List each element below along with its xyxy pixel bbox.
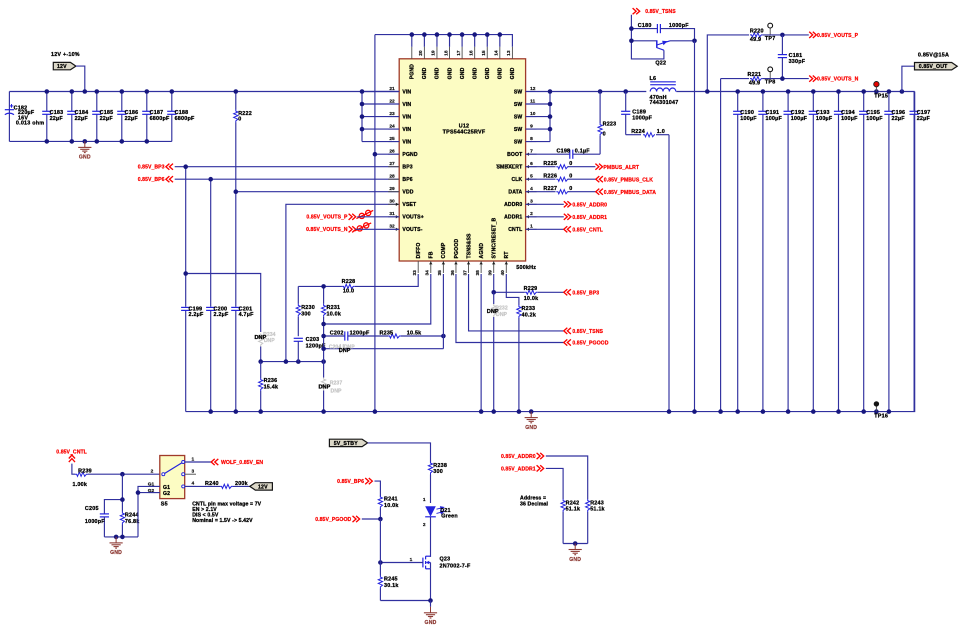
svg-text:WOLF_0.85V_EN: WOLF_0.85V_EN — [221, 460, 263, 466]
svg-text:SYNC/RESET_B: SYNC/RESET_B — [492, 217, 498, 258]
svg-text:100µF: 100µF — [841, 116, 858, 122]
wire input cap bottom rail — [9, 140, 171, 142]
wire VDD row — [236, 191, 399, 193]
svg-text:38: 38 — [475, 270, 481, 276]
svg-text:40.2k: 40.2k — [522, 312, 537, 318]
wire FB row — [324, 274, 431, 324]
svg-text:GND: GND — [460, 67, 466, 79]
svg-text:GND: GND — [569, 557, 581, 563]
svg-text:G1: G1 — [163, 485, 170, 491]
wire SW row — [526, 91, 647, 93]
wire CNTL label to R239 — [72, 464, 75, 475]
wire S5 G1 G2 to ground — [138, 486, 160, 537]
wires SW pin stubs — [526, 104, 550, 142]
svg-text:100µF: 100µF — [766, 116, 783, 122]
resistor R220 — [750, 28, 764, 42]
svg-text:37: 37 — [462, 270, 468, 276]
svg-text:29: 29 — [389, 186, 395, 192]
junction BP3 branch — [183, 271, 188, 276]
wire AGND column — [480, 274, 482, 412]
net label 0.85V_BP6 bottom — [337, 478, 372, 485]
resistor R237 DNP ghost — [318, 362, 342, 412]
junctions bottom node S5 — [114, 535, 125, 540]
capacitor C192 — [784, 92, 808, 412]
wire S5 pin1 to EN label — [185, 461, 212, 463]
wire R220 to label — [763, 34, 809, 36]
wire VOUTS- row — [355, 228, 399, 230]
svg-text:R221: R221 — [748, 72, 762, 78]
wire address ground row — [563, 543, 588, 545]
svg-text:GND: GND — [435, 67, 441, 79]
junction PGOOD divider — [378, 517, 383, 522]
wire BP6 row — [175, 178, 400, 180]
resistor R233 — [517, 305, 536, 412]
svg-text:35: 35 — [437, 270, 443, 276]
capacitor C186 — [117, 92, 138, 142]
svg-text:C198: C198 — [557, 149, 571, 155]
resistor R229 — [494, 286, 564, 302]
capacitor C203 — [294, 337, 326, 362]
resistor R226 PMBUS clock row — [526, 174, 596, 182]
svg-text:R231: R231 — [327, 305, 341, 311]
resistor R242 — [561, 499, 580, 544]
svg-text:1: 1 — [410, 557, 413, 563]
resistor R230 — [296, 286, 315, 336]
svg-text:SW: SW — [514, 139, 523, 145]
svg-text:GND: GND — [422, 67, 428, 79]
svg-text:C205: C205 — [85, 506, 99, 512]
svg-text:0.85V_VOUTS_N: 0.85V_VOUTS_N — [817, 77, 859, 83]
junction R222 top — [234, 89, 239, 94]
U12 bottom pin numbers 33-40 — [412, 270, 506, 276]
wire top GND bus — [375, 35, 513, 47]
transistor Q22 — [631, 40, 694, 66]
capacitor C185 — [92, 92, 113, 142]
svg-text:GND: GND — [110, 550, 122, 556]
junctions top GND bus — [410, 32, 503, 37]
junctions Q22 — [629, 26, 697, 43]
svg-text:Nominal = 1.5V -> 5.42V: Nominal = 1.5V -> 5.42V — [192, 518, 253, 524]
wire ADDR0 to R243 — [546, 456, 588, 499]
transistor Q23 2N7002-7-F — [410, 556, 471, 569]
svg-text:2: 2 — [423, 522, 426, 528]
wire SYNC/RESET_B column — [493, 274, 495, 292]
wire R241 to R245 — [379, 519, 381, 576]
svg-text:12V +-10%: 12V +-10% — [51, 52, 80, 58]
svg-text:VOUTS-: VOUTS- — [402, 227, 422, 233]
svg-text:S5: S5 — [161, 501, 168, 507]
svg-text:6800pF: 6800pF — [150, 116, 170, 122]
wire VOUTS_P sense tap — [707, 35, 749, 92]
svg-text:Q23: Q23 — [440, 557, 451, 563]
svg-text:VIN: VIN — [402, 127, 411, 133]
svg-text:0: 0 — [569, 186, 572, 192]
svg-text:1000pF: 1000pF — [669, 23, 689, 29]
svg-text:FB: FB — [429, 251, 435, 258]
svg-text:VDD: VDD — [402, 190, 413, 196]
svg-text:C181: C181 — [789, 53, 803, 59]
LED D21 — [423, 497, 458, 556]
junction VDD row — [234, 189, 239, 194]
svg-text:Green: Green — [441, 514, 458, 520]
svg-text:1.00k: 1.00k — [73, 482, 88, 488]
svg-text:ADDR1: ADDR1 — [504, 215, 522, 221]
wire VOUTS_N ground column — [720, 79, 722, 412]
power flag 12V input — [53, 62, 76, 70]
resistor R231 — [322, 286, 342, 361]
junctions bottom ground rail — [208, 409, 891, 414]
svg-text:RT: RT — [504, 251, 510, 259]
svg-text:ADDR0: ADDR0 — [504, 202, 522, 208]
capacitor C204 DNP ghost row — [324, 344, 444, 354]
svg-text:100µF: 100µF — [791, 116, 808, 122]
svg-text:0.85V_VOUTS_P: 0.85V_VOUTS_P — [306, 215, 348, 221]
resistor R224 — [626, 129, 669, 137]
svg-text:0.013 ohm: 0.013 ohm — [16, 121, 44, 127]
svg-text:GND: GND — [525, 425, 537, 431]
wire C205/R244 bottom node — [104, 536, 138, 538]
capacitor C180 — [631, 23, 694, 41]
svg-text:DNP: DNP — [339, 348, 351, 354]
resistor R241 — [378, 496, 398, 520]
U12 top pin names — [410, 64, 517, 79]
net label 0.85V_PGOOD bottom — [315, 516, 359, 523]
resistor R232 DNP ghost — [487, 292, 508, 411]
svg-text:0.85V_ADDR1: 0.85V_ADDR1 — [572, 215, 607, 221]
wire bottom row LED block — [380, 600, 430, 602]
label address note — [520, 496, 549, 508]
svg-text:30: 30 — [389, 199, 395, 205]
U12 right pin names — [496, 89, 523, 233]
resistor R235 — [380, 331, 444, 339]
inductor L6 — [650, 76, 679, 106]
svg-text:15: 15 — [481, 50, 487, 56]
net label 0.85V_ADDR0 bottom — [501, 453, 544, 460]
svg-text:COMP: COMP — [441, 242, 447, 258]
svg-text:0.85V_CNTL: 0.85V_CNTL — [572, 227, 603, 233]
net label 0.85V_VOUTS_P with twisted pair symbol — [306, 210, 373, 220]
svg-text:10.5k: 10.5k — [407, 331, 422, 337]
svg-text:330pF: 330pF — [789, 59, 806, 65]
svg-text:1.0: 1.0 — [657, 129, 665, 135]
svg-text:0: 0 — [569, 161, 572, 167]
svg-text:0.85V_PMBUS_CLK: 0.85V_PMBUS_CLK — [604, 177, 653, 183]
svg-text:0.85V@15A: 0.85V@15A — [918, 52, 949, 58]
svg-text:22µF: 22µF — [100, 116, 114, 122]
svg-text:R242: R242 — [566, 500, 580, 506]
svg-text:R235: R235 — [380, 331, 394, 337]
wire ADDR0 row — [526, 203, 564, 205]
svg-text:C180: C180 — [638, 23, 652, 29]
svg-text:4: 4 — [192, 481, 195, 487]
svg-text:CLK: CLK — [511, 177, 522, 183]
wire BP6 to R241 — [375, 481, 381, 497]
svg-text:22µF: 22µF — [50, 116, 64, 122]
capacitor C182 — [5, 104, 44, 127]
svg-text:22µF: 22µF — [125, 116, 139, 122]
svg-text:0.1µF: 0.1µF — [575, 149, 590, 155]
junctions FB divider node — [258, 359, 326, 364]
svg-text:18: 18 — [443, 50, 449, 56]
svg-text:PGOOD: PGOOD — [454, 239, 460, 259]
net label 0.85V_PMBUS_DATA — [596, 189, 656, 196]
svg-text:1000pF: 1000pF — [85, 519, 105, 525]
resistor R225 PMBUS alert row — [526, 161, 596, 169]
capacitor C183 — [42, 92, 63, 142]
svg-text:TP16: TP16 — [874, 414, 888, 420]
wire Q23 source to ground — [430, 569, 432, 601]
net label 0.85V_VOUTS_N with twisted pair symbol — [306, 223, 371, 233]
wire PGOOD row to divider — [362, 518, 381, 520]
svg-text:14: 14 — [494, 50, 500, 56]
wire COMP column — [442, 274, 444, 349]
svg-text:0.85V_VOUTS_P: 0.85V_VOUTS_P — [817, 33, 859, 39]
ground GND main rail — [525, 412, 538, 431]
svg-text:R226: R226 — [543, 174, 557, 180]
resistor R228 — [342, 279, 356, 294]
svg-text:PGND: PGND — [410, 64, 416, 79]
svg-text:C202: C202 — [330, 331, 344, 337]
ground GND input caps — [78, 141, 91, 160]
wire PGND column — [374, 35, 376, 412]
svg-text:R230: R230 — [301, 305, 315, 311]
ground GND S5 block — [110, 537, 123, 556]
net label WOLF_0.85V_EN — [211, 459, 263, 466]
svg-text:R233: R233 — [522, 306, 536, 312]
svg-text:10.0k: 10.0k — [384, 503, 399, 509]
svg-text:CNTL: CNTL — [508, 227, 522, 233]
svg-text:27: 27 — [389, 161, 395, 167]
wire VSET row — [286, 204, 399, 361]
svg-text:744301047: 744301047 — [650, 100, 679, 106]
svg-text:22µF: 22µF — [75, 116, 89, 122]
svg-text:R228: R228 — [342, 279, 356, 285]
capacitor C205 — [85, 500, 123, 537]
svg-text:51.1k: 51.1k — [566, 507, 581, 513]
svg-text:0.85V_VOUTS_N: 0.85V_VOUTS_N — [306, 227, 348, 233]
capacitor C201 — [231, 192, 254, 412]
svg-text:5V_STBY: 5V_STBY — [334, 441, 359, 447]
resistor R238 — [428, 462, 447, 504]
svg-text:0.85V_PGOOD: 0.85V_PGOOD — [315, 517, 351, 523]
wire ADDR1 to R242 — [546, 468, 563, 499]
wire PGOOD column and row — [456, 274, 564, 343]
svg-text:VIN: VIN — [402, 102, 411, 108]
junction BP3/C199 — [183, 164, 188, 169]
svg-text:GND: GND — [510, 67, 516, 79]
net label 0.85V_PMBUS_CLK — [596, 176, 653, 183]
resistor R236 — [259, 362, 279, 412]
svg-text:0.85V_TSNS: 0.85V_TSNS — [645, 9, 676, 15]
svg-text:17: 17 — [456, 50, 462, 56]
svg-text:0.85V_PMBUS_DATA: 0.85V_PMBUS_DATA — [604, 190, 656, 196]
svg-text:0.85V_ADDR0: 0.85V_ADDR0 — [572, 202, 607, 208]
wire 12V flag to rail — [76, 66, 85, 91]
capacitor C181 — [778, 35, 806, 79]
svg-text:2N7002-7-F: 2N7002-7-F — [440, 563, 471, 569]
svg-text:6800pF: 6800pF — [175, 116, 195, 122]
junction COMP/R235 — [441, 334, 446, 339]
svg-text:0.85V_BP3: 0.85V_BP3 — [138, 165, 165, 171]
svg-text:1000pF: 1000pF — [632, 116, 652, 122]
svg-text:DNP: DNP — [331, 388, 342, 394]
svg-text:C203: C203 — [306, 337, 320, 343]
svg-text:51.1k: 51.1k — [590, 507, 605, 513]
svg-text:0.85V_PGOOD: 0.85V_PGOOD — [572, 341, 608, 347]
resistor R223 — [598, 92, 616, 155]
test point TP7 — [765, 23, 776, 42]
power flag 5V_STBY — [329, 439, 367, 447]
wire DIFFO row — [298, 285, 342, 287]
junction C205 branch — [120, 497, 125, 502]
svg-text:SW: SW — [514, 89, 523, 95]
junction C181 bottom — [780, 76, 785, 81]
svg-text:VSET: VSET — [402, 202, 417, 208]
net label 0.85V_VOUTS_N right — [809, 76, 858, 83]
svg-text:49.9: 49.9 — [750, 37, 761, 43]
svg-text:28: 28 — [389, 174, 395, 180]
svg-text:R245: R245 — [384, 577, 398, 583]
svg-text:BOOT: BOOT — [507, 152, 523, 158]
capacitor C197 — [910, 92, 931, 412]
resistor R243 — [586, 499, 605, 544]
svg-text:DIFFO: DIFFO — [416, 242, 422, 258]
capacitor C187 — [142, 92, 170, 142]
svg-text:L6: L6 — [650, 76, 657, 82]
svg-text:TP15: TP15 — [874, 94, 888, 100]
wire BP3 row — [175, 166, 400, 168]
svg-text:G2: G2 — [163, 491, 170, 497]
svg-text:DNP: DNP — [487, 309, 499, 315]
test point TP16 — [874, 401, 888, 419]
svg-text:0.85V_BP6: 0.85V_BP6 — [138, 177, 165, 183]
wire CNTL row — [526, 228, 564, 230]
svg-text:GND: GND — [425, 620, 437, 626]
svg-text:22µF: 22µF — [917, 116, 931, 122]
wires VIN pin stubs — [362, 92, 399, 142]
junction gate — [378, 560, 383, 565]
svg-text:DATA: DATA — [508, 190, 522, 196]
svg-text:36 Decimal: 36 Decimal — [520, 501, 549, 507]
svg-text:TPS544C25RVF: TPS544C25RVF — [443, 129, 486, 135]
capacitor C194 — [834, 92, 858, 412]
net label 0.85V_PGOOD right — [564, 339, 609, 346]
svg-text:500kHz: 500kHz — [516, 265, 536, 271]
junctions SW bus — [548, 89, 628, 131]
svg-text:15.4k: 15.4k — [264, 384, 279, 390]
junction PGND — [373, 152, 378, 157]
svg-text:BP3: BP3 — [402, 165, 412, 171]
power flag 0.85V_OUT — [902, 63, 957, 92]
svg-text:R220: R220 — [750, 28, 764, 34]
power flag 12V bottom — [250, 483, 273, 491]
test point TP15 — [874, 82, 888, 100]
svg-text:0.85V_TSNS: 0.85V_TSNS — [572, 329, 603, 335]
svg-text:12V: 12V — [57, 64, 67, 70]
svg-text:10.0k: 10.0k — [524, 296, 539, 302]
svg-text:1: 1 — [423, 497, 426, 503]
junction LED ground node — [428, 598, 433, 603]
net label 0.85V_BP3 left — [138, 164, 173, 171]
wire SW bus — [549, 92, 551, 142]
junction C202 left — [321, 334, 326, 339]
svg-text:0.85V_ADDR0: 0.85V_ADDR0 — [501, 454, 536, 460]
wire R224 snubber to ground column — [668, 135, 670, 412]
capacitor C188 — [167, 92, 195, 142]
net label 0.85V_ADDR0 pin — [564, 201, 607, 208]
junction G pins — [136, 490, 141, 495]
svg-text:1: 1 — [192, 456, 195, 462]
wire RT column — [506, 274, 519, 305]
svg-text:R229: R229 — [524, 286, 538, 292]
svg-text:10.0: 10.0 — [343, 289, 354, 295]
wire output rail — [676, 91, 914, 93]
wire bottom ground rail — [186, 92, 915, 412]
junction FB node — [321, 322, 326, 327]
svg-text:R239: R239 — [78, 468, 92, 474]
net label 0.85V_BP6 left — [138, 176, 173, 183]
capacitor C199 — [181, 167, 204, 412]
svg-text:VIN: VIN — [402, 114, 411, 120]
svg-text:49.9: 49.9 — [749, 81, 760, 87]
svg-text:SW: SW — [514, 127, 523, 133]
net label 0.85V_ADDR1 bottom — [501, 465, 544, 472]
junction C181 top — [780, 33, 785, 38]
svg-text:R225: R225 — [543, 161, 557, 167]
svg-text:PMBUS_ALRT: PMBUS_ALRT — [603, 165, 640, 171]
svg-text:GND: GND — [498, 67, 504, 79]
resistor R240 — [185, 481, 250, 489]
wire VOUTS_N sense tap — [721, 78, 749, 80]
resistor R239 — [73, 468, 160, 488]
resistor R244 — [120, 474, 139, 537]
junctions output rail — [705, 89, 904, 94]
svg-text:TP7: TP7 — [765, 36, 776, 42]
svg-text:1200pF: 1200pF — [350, 331, 370, 337]
wire gate row — [380, 562, 423, 564]
U12 left pin numbers 21-32 — [389, 86, 395, 230]
junction R231 top — [321, 284, 326, 289]
U12 top pin numbers 20-13 — [418, 50, 512, 56]
svg-text:76.8k: 76.8k — [125, 519, 140, 525]
svg-text:SMBALRT: SMBALRT — [496, 165, 523, 171]
svg-text:3: 3 — [192, 469, 195, 475]
svg-text:TP8: TP8 — [765, 80, 776, 86]
capacitor C189 — [621, 92, 653, 135]
svg-text:GND: GND — [485, 67, 491, 79]
svg-text:30.1k: 30.1k — [384, 583, 399, 589]
svg-text:0: 0 — [569, 174, 572, 180]
wire 5V_STBY to R238 — [368, 443, 431, 463]
svg-text:33: 33 — [412, 270, 418, 276]
svg-text:100µF: 100µF — [866, 116, 883, 122]
ground GND address block — [569, 544, 582, 563]
label CNTL note — [192, 501, 261, 524]
U12 left pin names — [402, 89, 423, 233]
capacitor C184 — [67, 92, 88, 142]
wire PGND pin row — [375, 153, 399, 155]
net label 0.85V_ADDR1 pin — [564, 214, 607, 221]
capacitor C193 — [809, 92, 833, 412]
svg-text:300: 300 — [433, 469, 443, 475]
svg-text:Q22: Q22 — [655, 61, 666, 67]
svg-text:R243: R243 — [590, 500, 604, 506]
svg-text:0.85V_BP6: 0.85V_BP6 — [337, 479, 364, 485]
svg-text:DNP: DNP — [254, 335, 266, 341]
svg-text:12V: 12V — [258, 484, 268, 490]
svg-text:TSNS&SS: TSNS&SS — [466, 233, 472, 259]
svg-text:0.85V_BP3: 0.85V_BP3 — [572, 290, 599, 296]
